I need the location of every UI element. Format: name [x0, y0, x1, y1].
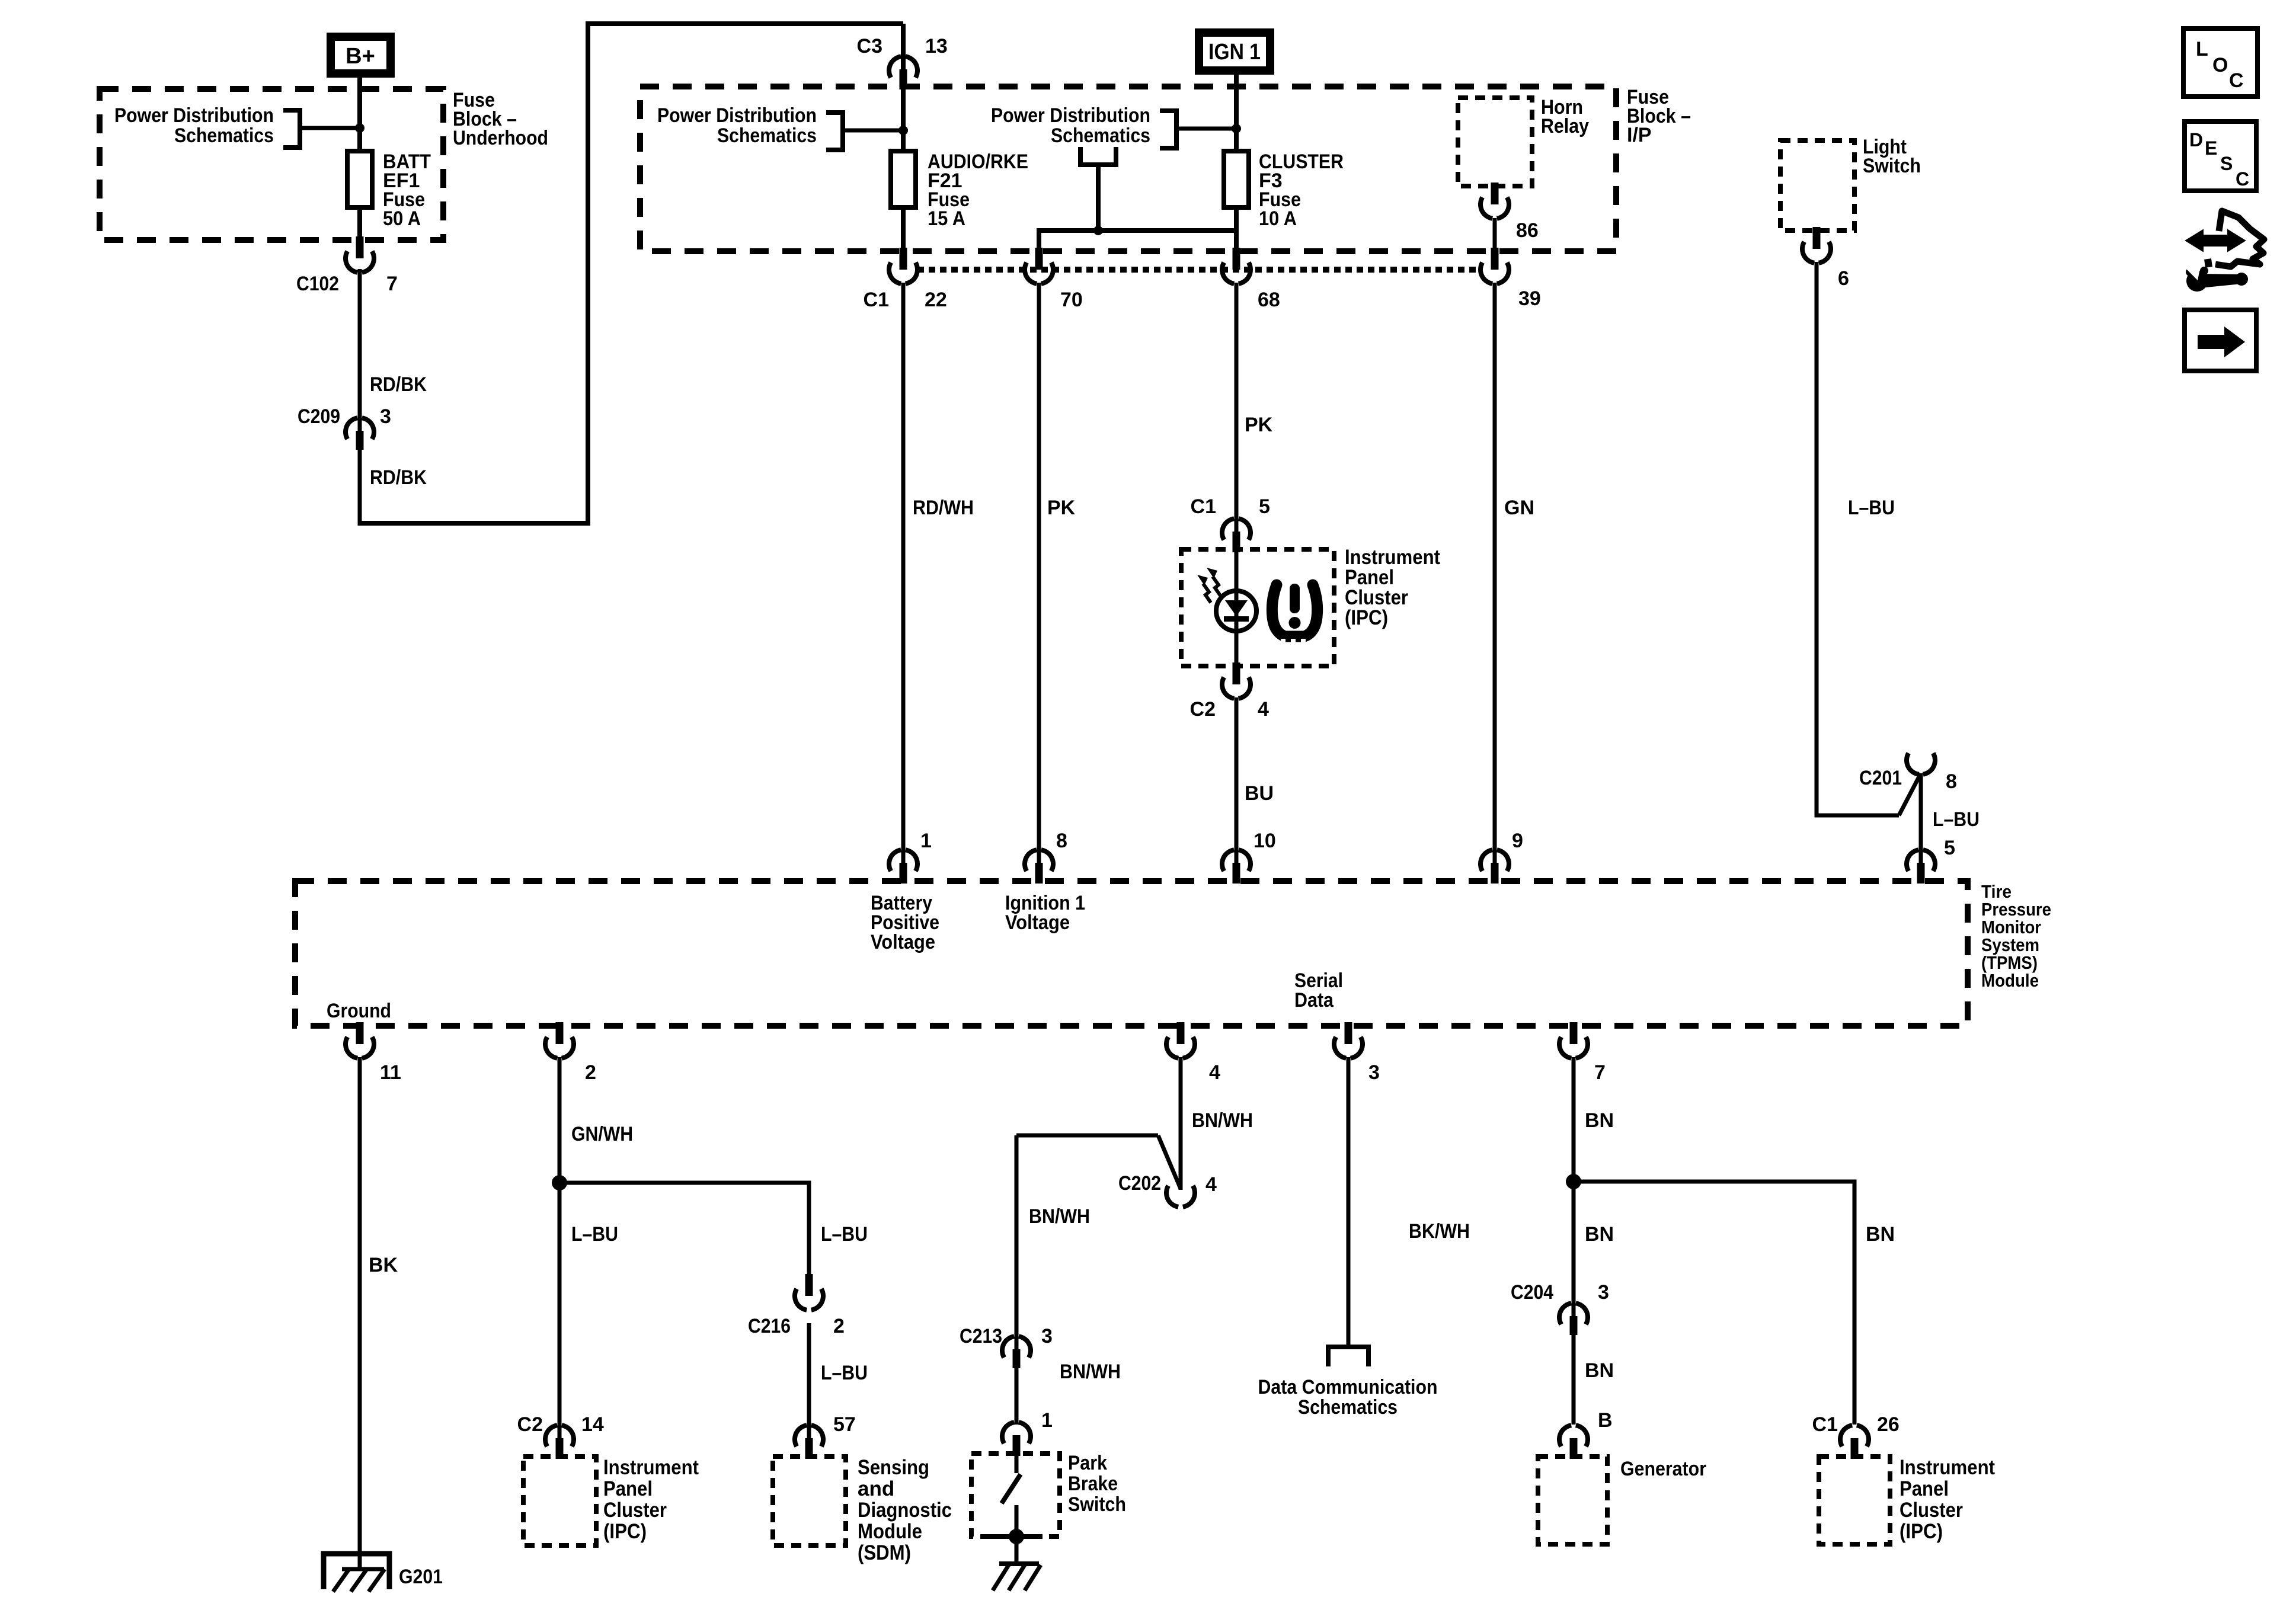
node (junction dot): [990, 1529, 1043, 1544]
svg-text:(IPC): (IPC): [603, 1520, 647, 1543]
svg-text:Data: Data: [1294, 989, 1334, 1012]
svg-text:B+: B+: [346, 44, 375, 69]
svg-text:Power Distribution: Power Distribution: [114, 104, 274, 127]
wire BN: [1574, 1182, 1895, 1425]
text Sensing and Diagnostic Module (SDM): [858, 1456, 952, 1564]
text Light Switch: [1863, 136, 1921, 177]
wire: [901, 207, 906, 255]
svg-text:5: 5: [1944, 837, 1955, 859]
wire BN: [1574, 1057, 1614, 1318]
svg-text:C1: C1: [864, 289, 889, 311]
svg-text:BK/WH: BK/WH: [1409, 1220, 1470, 1243]
generator box: [1538, 1457, 1607, 1544]
svg-text:11: 11: [380, 1061, 401, 1084]
wire BN: [1574, 1335, 1614, 1425]
horn relay box: [1458, 98, 1532, 186]
svg-text:Schematics: Schematics: [174, 124, 274, 147]
connector face dotted line: [917, 267, 1480, 273]
svg-text:L–BU: L–BU: [821, 1223, 868, 1246]
svg-text:Schematics: Schematics: [1051, 124, 1150, 147]
svg-text:Cluster: Cluster: [603, 1499, 667, 1522]
icon service tool: [2185, 211, 2264, 292]
connector C209 pin 3: [298, 405, 391, 450]
svg-text:68: 68: [1258, 289, 1280, 311]
wire: [360, 24, 903, 523]
svg-text:S: S: [2220, 153, 2233, 174]
text Data Communication Schematics: [1258, 1376, 1438, 1419]
svg-text:PK: PK: [1047, 497, 1076, 519]
svg-text:(IPC): (IPC): [1345, 606, 1388, 629]
svg-text:Park: Park: [1068, 1452, 1107, 1474]
switch blade park brake: [1002, 1454, 1021, 1564]
svg-text:5: 5: [1259, 495, 1270, 518]
svg-text:57: 57: [833, 1413, 856, 1436]
fork symbol power distribution: [1080, 147, 1116, 231]
connector TPMS pin 5: [1907, 850, 1935, 884]
connector pin 6: [1802, 227, 1849, 290]
text Fuse Block Underhood: [453, 89, 548, 149]
icon arrow right: [2185, 310, 2256, 371]
node (junction dot): [1093, 226, 1103, 235]
wire GN: [1495, 283, 1534, 864]
svg-text:2: 2: [833, 1315, 845, 1337]
ground G201: [324, 1554, 443, 1592]
svg-text:Relay: Relay: [1541, 115, 1589, 137]
connector TPMS pin 3: [1334, 1022, 1380, 1084]
svg-text:26: 26: [1877, 1413, 1900, 1436]
svg-text:4: 4: [1209, 1061, 1220, 1084]
connector TPMS pin 9: [1480, 830, 1523, 884]
svg-text:1: 1: [920, 830, 932, 852]
svg-text:Switch: Switch: [1068, 1493, 1126, 1516]
svg-text:50 A: 50 A: [383, 207, 421, 230]
power symbol B+: [331, 37, 391, 73]
svg-text:4: 4: [1258, 698, 1269, 721]
svg-text:BN: BN: [1585, 1223, 1614, 1246]
svg-text:Schematics: Schematics: [717, 124, 817, 147]
svg-text:Schematics: Schematics: [1298, 1396, 1398, 1419]
svg-text:8: 8: [1056, 830, 1067, 852]
power symbol IGN 1: [1199, 33, 1270, 71]
connector pin 1 park brake: [1002, 1409, 1053, 1456]
svg-text:RD/WH: RD/WH: [913, 497, 974, 519]
connector C216 pin 2: [748, 1274, 845, 1337]
wire L-BU: [1817, 262, 1899, 815]
instrument panel cluster (IPC) box lower left: [523, 1457, 596, 1545]
svg-text:Generator: Generator: [1620, 1458, 1706, 1480]
wire: [1235, 550, 1239, 666]
svg-text:3: 3: [1598, 1281, 1609, 1304]
svg-text:(SDM): (SDM): [858, 1541, 911, 1564]
svg-text:L–BU: L–BU: [821, 1362, 868, 1384]
connector TPMS pin 1: [889, 830, 932, 884]
text Generator: [1620, 1458, 1706, 1480]
svg-text:C1: C1: [1812, 1413, 1838, 1436]
svg-text:BK: BK: [369, 1254, 398, 1276]
svg-text:Power Distribution: Power Distribution: [657, 104, 817, 127]
svg-text:15 A: 15 A: [928, 207, 965, 230]
wire GN/WH: [559, 1057, 633, 1183]
svg-text:L–BU: L–BU: [1933, 808, 1980, 831]
svg-text:RD/BK: RD/BK: [370, 373, 427, 396]
connector pin 68: [1222, 248, 1280, 311]
svg-text:6: 6: [1838, 267, 1849, 290]
connector C204 pin 3: [1511, 1281, 1609, 1335]
connector pin 86: [1480, 183, 1539, 242]
connector pin 57: [795, 1413, 856, 1459]
wire: [1158, 1135, 1181, 1189]
svg-text:BN: BN: [1585, 1109, 1614, 1132]
reference bracket Power Distribution Schematics (audio): [657, 104, 843, 150]
wire RD/BK: [360, 449, 427, 526]
svg-text:C102: C102: [296, 273, 339, 295]
svg-text:E: E: [2205, 137, 2217, 159]
text Horn Relay: [1541, 96, 1589, 137]
svg-text:G201: G201: [399, 1566, 443, 1588]
svg-text:L–BU: L–BU: [571, 1223, 618, 1246]
svg-text:BN: BN: [1585, 1359, 1614, 1382]
svg-text:C216: C216: [748, 1315, 791, 1337]
icon TPMS warning: [1272, 584, 1317, 644]
text Battery Positive Voltage: [871, 892, 939, 953]
svg-text:L: L: [2196, 38, 2208, 60]
svg-text:PK: PK: [1245, 414, 1273, 436]
svg-text:10 A: 10 A: [1259, 207, 1297, 230]
wire PK: [1236, 283, 1273, 533]
svg-text:C3: C3: [857, 35, 882, 57]
svg-text:8: 8: [1946, 770, 1957, 793]
svg-text:7: 7: [386, 273, 398, 295]
wire: [1016, 1134, 1158, 1138]
wire: [843, 129, 901, 133]
wire: [1234, 75, 1239, 152]
connector pin B generator: [1559, 1409, 1613, 1459]
text Tire Pressure Monitor System (TPMS) Module: [1981, 881, 2051, 991]
wire RD/WH: [903, 283, 974, 864]
svg-text:Instrument: Instrument: [603, 1456, 699, 1479]
svg-text:86: 86: [1516, 219, 1539, 242]
svg-text:7: 7: [1594, 1061, 1606, 1084]
svg-text:9: 9: [1512, 830, 1523, 852]
wire BU: [1236, 697, 1274, 864]
svg-text:Module: Module: [1981, 970, 2039, 991]
svg-text:Cluster: Cluster: [1900, 1499, 1963, 1522]
text Ground: [327, 1000, 391, 1022]
ground park brake: [993, 1564, 1041, 1590]
wire: [357, 207, 362, 244]
svg-text:22: 22: [925, 289, 947, 311]
connector C201 pin 8: [1859, 753, 1957, 793]
wire BN/WH: [1016, 1361, 1121, 1425]
text Fuse Block I/P: [1627, 86, 1691, 146]
wire BK: [360, 1057, 398, 1554]
connector C102 pin 7: [296, 236, 398, 295]
wire L-BU: [559, 1183, 618, 1441]
reference bracket Power Distribution Schematics (cluster): [991, 104, 1176, 148]
svg-text:Panel: Panel: [603, 1477, 653, 1500]
text fuse EF1 value: [383, 151, 431, 230]
svg-text:13: 13: [925, 35, 948, 57]
wire: [299, 126, 357, 130]
text fuse F21 value: [928, 151, 1028, 230]
svg-text:(IPC): (IPC): [1900, 1520, 1943, 1543]
wire L-BU: [559, 1183, 868, 1278]
svg-text:C202: C202: [1118, 1172, 1161, 1195]
svg-text:BU: BU: [1245, 782, 1274, 805]
svg-text:10: 10: [1253, 830, 1276, 852]
connector TPMS pin 10: [1222, 830, 1276, 884]
connector C202 pin 4: [1118, 1172, 1217, 1207]
svg-text:C1: C1: [1191, 495, 1216, 518]
svg-text:C213: C213: [960, 1325, 1002, 1347]
svg-text:B: B: [1598, 1409, 1613, 1432]
svg-text:39: 39: [1518, 287, 1541, 310]
svg-text:4: 4: [1205, 1173, 1217, 1196]
svg-text:1: 1: [1041, 1409, 1053, 1432]
node (junction dot): [1566, 1174, 1581, 1189]
connector C2 pin 4: [1190, 662, 1269, 721]
TPMS module box: [295, 881, 1968, 1026]
svg-text:3: 3: [380, 405, 391, 428]
fuse EF1: [347, 151, 372, 207]
svg-text:Ground: Ground: [327, 1000, 391, 1022]
wire: [901, 89, 906, 152]
svg-text:3: 3: [1041, 1325, 1053, 1347]
indicator LED: [1197, 568, 1256, 631]
svg-text:C2: C2: [1190, 698, 1216, 721]
svg-text:BN/WH: BN/WH: [1029, 1205, 1090, 1228]
connector TPMS pin 4: [1166, 1022, 1220, 1084]
svg-text:BN/WH: BN/WH: [1192, 1109, 1253, 1132]
svg-text:D: D: [2189, 129, 2203, 151]
instrument panel cluster (IPC) box lower right: [1819, 1457, 1890, 1544]
connector pin 39: [1480, 248, 1541, 310]
node (junction dot): [552, 1175, 567, 1190]
svg-text:Voltage: Voltage: [1005, 911, 1070, 934]
node (junction dot): [355, 123, 364, 133]
svg-text:14: 14: [581, 1413, 604, 1436]
connector TPMS pin 2: [545, 1022, 596, 1084]
icon LOC: [2183, 28, 2257, 97]
svg-text:Data Communication: Data Communication: [1258, 1376, 1438, 1398]
fuse F3: [1224, 151, 1249, 207]
wire: [1039, 231, 1236, 255]
light switch box: [1780, 140, 1854, 231]
text Ignition 1 Voltage: [1005, 892, 1085, 934]
svg-text:Sensing: Sensing: [858, 1456, 929, 1479]
svg-text:Power Distribution: Power Distribution: [991, 104, 1150, 127]
text BN: [1585, 1223, 1614, 1246]
connector C213 pin 3: [960, 1325, 1053, 1368]
wire: [1176, 127, 1234, 131]
svg-text:RD/BK: RD/BK: [370, 466, 427, 489]
svg-text:C: C: [2236, 168, 2249, 190]
wire: [357, 78, 362, 152]
svg-text:L–BU: L–BU: [1848, 497, 1895, 519]
svg-text:3: 3: [1368, 1061, 1380, 1084]
text Instrument Panel Cluster (IPC): [1345, 546, 1440, 629]
svg-text:BN: BN: [1866, 1223, 1895, 1246]
text fuse F3 value: [1259, 151, 1344, 230]
svg-text:I/P: I/P: [1627, 124, 1652, 146]
svg-text:Voltage: Voltage: [871, 931, 935, 953]
data communication schematics symbol: [1328, 1347, 1368, 1366]
connector TPMS pin 7: [1559, 1022, 1606, 1084]
svg-text:C2: C2: [517, 1413, 543, 1436]
fuse F21: [891, 151, 916, 207]
svg-text:GN: GN: [1504, 497, 1534, 519]
node (junction dot): [1232, 124, 1241, 133]
svg-text:C: C: [2229, 69, 2244, 92]
svg-text:IGN 1: IGN 1: [1208, 40, 1261, 65]
svg-text:O: O: [2212, 54, 2228, 76]
svg-text:70: 70: [1060, 289, 1083, 311]
svg-text:Brake: Brake: [1068, 1473, 1118, 1495]
wire BK/WH: [1348, 1057, 1470, 1347]
wire: [1899, 773, 1921, 815]
connector C3 pin 13: [857, 35, 948, 89]
connector C1 pin 22: [864, 248, 947, 311]
wire RD/BK: [360, 269, 427, 433]
wire L-BU: [809, 1323, 868, 1441]
wire: [901, 24, 906, 71]
connector C1 pin 5: [1191, 495, 1270, 552]
wire BN/WH: [1016, 1135, 1090, 1352]
svg-text:C209: C209: [298, 405, 340, 428]
sensing and diagnostic module box: [773, 1457, 846, 1545]
fuse block I/P box: [640, 87, 1616, 251]
connector C1 pin 26: [1812, 1413, 1900, 1459]
wire: [1493, 218, 1497, 255]
wire BN/WH: [1181, 1057, 1253, 1190]
connector C2 pin 14: [517, 1413, 604, 1459]
text Instrument Panel Cluster (IPC) lower: [603, 1456, 699, 1543]
svg-text:C201: C201: [1859, 767, 1902, 789]
svg-text:Instrument: Instrument: [1900, 1456, 1995, 1479]
text Instrument Panel Cluster (IPC) lower right: [1900, 1456, 1995, 1543]
svg-text:Underhood: Underhood: [453, 127, 548, 149]
connector TPMS pin 11: [346, 1022, 401, 1084]
svg-text:Diagnostic: Diagnostic: [858, 1499, 952, 1522]
svg-text:2: 2: [585, 1061, 596, 1084]
text Serial Data: [1294, 969, 1343, 1012]
svg-text:C204: C204: [1511, 1281, 1553, 1304]
fuse block underhood box: [100, 89, 443, 240]
wire L-BU: [1921, 773, 1980, 864]
reference bracket Power Distribution Schematics (underhood): [114, 104, 300, 148]
svg-text:and: and: [858, 1477, 894, 1500]
connector pin 70: [1025, 248, 1083, 311]
instrument panel cluster box: [1181, 549, 1334, 666]
wire: [1234, 207, 1239, 255]
svg-text:Switch: Switch: [1863, 155, 1921, 177]
park brake switch box: [971, 1454, 1060, 1537]
text Park Brake Switch: [1068, 1452, 1126, 1516]
svg-text:Module: Module: [858, 1520, 922, 1543]
node (junction dot): [898, 126, 908, 135]
svg-text:GN/WH: GN/WH: [571, 1123, 633, 1145]
icon DESC: [2185, 121, 2256, 191]
wire PK: [1039, 283, 1076, 864]
svg-text:BN/WH: BN/WH: [1060, 1361, 1121, 1383]
svg-text:Panel: Panel: [1900, 1477, 1949, 1500]
connector TPMS pin 8: [1025, 830, 1067, 884]
